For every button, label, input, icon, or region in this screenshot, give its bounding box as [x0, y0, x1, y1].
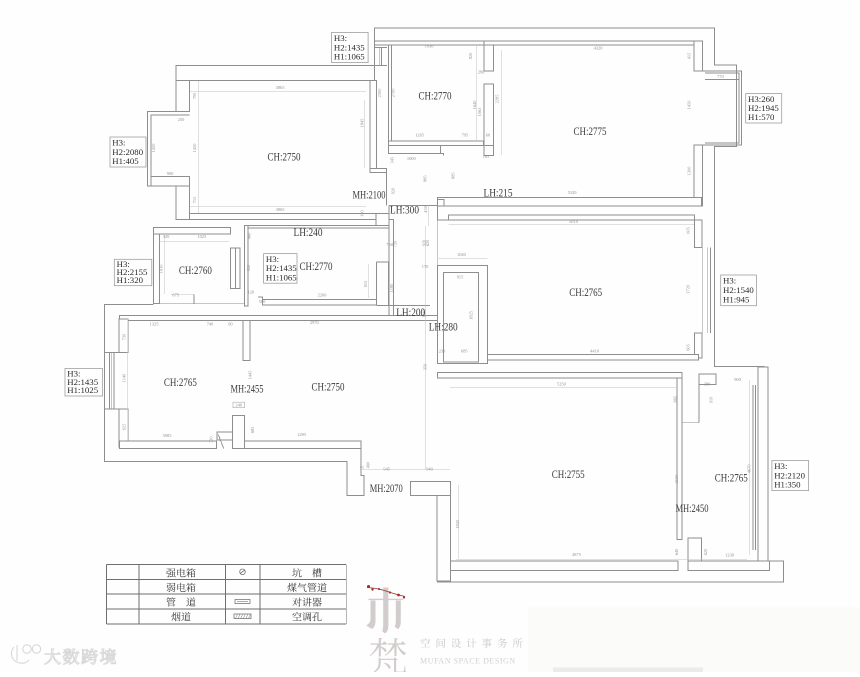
svg-text:5250: 5250	[557, 382, 567, 387]
hall left wall vertical	[389, 220, 394, 316]
svg-text:460: 460	[247, 232, 252, 239]
left wall of bottom-right CH:2765	[677, 378, 682, 539]
svg-text:415: 415	[687, 52, 692, 59]
window edge line right mid	[701, 248, 703, 334]
svg-text:910: 910	[708, 396, 713, 403]
svg-text:1445: 1445	[248, 370, 253, 380]
right wall of mid CH:2765 upper	[695, 220, 703, 248]
svg-text:4410: 4410	[590, 349, 600, 354]
label box H3 top-middle	[332, 32, 369, 62]
dim line inside CH:2750 bottom	[190, 205, 366, 207]
label box H3 right middle	[721, 275, 757, 306]
svg-text:430: 430	[423, 205, 428, 212]
outer boundary bottom-left	[105, 305, 365, 496]
svg-text:330: 330	[208, 436, 213, 443]
door band middle line	[234, 248, 236, 288]
dim line inside living room top	[450, 386, 677, 388]
svg-text:LH:280: LH:280	[429, 320, 458, 334]
balcony left bottom sill	[151, 177, 190, 187]
svg-text:5085: 5085	[163, 433, 173, 438]
wall line below jog	[386, 172, 388, 205]
dim line 675	[171, 293, 194, 295]
svg-text:945: 945	[383, 467, 390, 472]
pier in bottom wall	[233, 416, 245, 449]
svg-text:1410: 1410	[158, 264, 163, 274]
notch at start of mid CH:2765 top wall	[449, 216, 463, 220]
svg-text:1820: 1820	[455, 519, 460, 529]
label box H3 left middle	[114, 259, 152, 286]
svg-text:2200: 2200	[318, 293, 328, 298]
svg-text:5010: 5010	[569, 219, 579, 224]
hall left line upper	[388, 205, 390, 219]
dim line inside CH:2760 left	[164, 234, 166, 294]
svg-text:1450: 1450	[687, 100, 692, 110]
svg-text:H1:405: H1:405	[112, 156, 139, 166]
dim line entrance horizontal	[364, 468, 450, 470]
outer boundary bottom-right	[437, 561, 783, 582]
svg-text:1230: 1230	[725, 553, 735, 558]
svg-text:H1:1065: H1:1065	[334, 52, 365, 62]
svg-text:H1:1025: H1:1025	[67, 385, 98, 395]
svg-text:1040: 1040	[457, 252, 467, 257]
dim line right of CH:2770	[476, 46, 478, 140]
legend symbol flue hatched	[234, 614, 251, 619]
svg-text:920: 920	[391, 187, 396, 194]
top wall of room CH:2775	[484, 41, 695, 45]
svg-text:240: 240	[236, 403, 243, 408]
foyer closet right line	[698, 384, 700, 422]
bottom wall lower band CH:2770	[389, 146, 441, 154]
line below closet	[376, 305, 430, 307]
svg-text:900: 900	[167, 171, 174, 176]
svg-text:500: 500	[259, 299, 266, 304]
door swing line	[218, 434, 224, 448]
svg-text:H1:945: H1:945	[723, 295, 750, 305]
watermark mufan logo glyph MU (stylized wood)	[366, 588, 403, 634]
dim line inside CH:2775 left	[500, 50, 502, 155]
svg-text:170: 170	[422, 264, 429, 269]
window glazing left of CH:2770 a	[378, 48, 380, 66]
svg-text:CH:2755: CH:2755	[552, 467, 585, 481]
top wall of room CH:2750	[176, 66, 375, 81]
svg-text:760: 760	[386, 242, 393, 247]
svg-text:720: 720	[393, 240, 398, 247]
partition between CH:2765 and bottom CH:2750	[243, 321, 250, 361]
svg-text:620: 620	[425, 239, 430, 246]
dim line inside bottom-left room	[127, 319, 129, 447]
step line below CH:2760	[193, 294, 195, 303]
dim line below mid top wall	[449, 223, 694, 225]
living room left wall	[437, 496, 451, 581]
svg-text:675: 675	[172, 293, 179, 298]
bottom wall of mid CH:2765	[488, 355, 699, 360]
dim line closet	[367, 264, 369, 298]
window head line left	[105, 351, 119, 353]
svg-text:640: 640	[674, 548, 679, 555]
dim line hall vertical 1	[425, 226, 427, 469]
svg-text:1265: 1265	[415, 133, 425, 138]
label box H3 bottom right	[772, 461, 809, 491]
door block 380	[699, 374, 716, 384]
stub wall at MH:2450 door	[688, 538, 702, 561]
svg-text:230: 230	[439, 349, 446, 354]
svg-text:685: 685	[461, 349, 468, 354]
window glazing bottom right 2	[754, 385, 756, 550]
svg-text:1325: 1325	[150, 322, 160, 327]
wall block below CH:2750 right corner	[376, 214, 389, 228]
dim line inside CH:2750 left	[198, 81, 200, 213]
step line to mid CH:2765 top wall	[438, 206, 449, 220]
wall box below CH:2775 bottom wall	[438, 200, 445, 206]
watermark text kongjian sheji shiwusuo	[420, 638, 522, 648]
svg-text:CH:2765: CH:2765	[715, 471, 748, 485]
dim line above shaft 1040	[438, 258, 488, 260]
svg-text:795: 795	[462, 133, 469, 138]
svg-text:380: 380	[704, 382, 711, 387]
label box H3 right upper	[746, 94, 782, 123]
top wall of room CH:2760	[154, 227, 231, 233]
dim line above living bottom wall	[456, 558, 747, 560]
window glazing left 2	[111, 352, 113, 409]
legend symbol pit circle	[240, 569, 246, 575]
svg-text:2285: 2285	[495, 94, 500, 104]
door jamb piece at bottom wall	[217, 432, 233, 440]
svg-text:2700: 2700	[391, 88, 396, 98]
window glazing left 3	[113, 352, 115, 409]
door band right of CH:2760	[231, 248, 240, 288]
svg-text:MH:2070: MH:2070	[370, 481, 403, 495]
svg-text:740: 740	[207, 322, 214, 327]
svg-text:490: 490	[366, 461, 371, 468]
svg-text:H2:1540: H2:1540	[723, 285, 754, 295]
label box H3 left lower	[65, 368, 103, 396]
left wall lower of CH:2750	[176, 186, 190, 220]
svg-text:250: 250	[178, 117, 185, 122]
svg-text:H3:: H3:	[723, 276, 736, 286]
svg-text:2970: 2970	[310, 320, 320, 325]
legend table grid	[107, 564, 347, 566]
svg-text:CH:2765: CH:2765	[164, 375, 197, 389]
right wall of bottom-right section	[758, 367, 768, 561]
balcony left outer	[147, 112, 189, 187]
svg-text:1180: 1180	[389, 283, 394, 292]
svg-text:1720: 1720	[686, 284, 691, 294]
svg-text:3865: 3865	[276, 207, 286, 212]
svg-text:MH:2450: MH:2450	[676, 501, 709, 515]
top wall of mid-right CH:2765	[448, 215, 694, 220]
outer boundary top-left horizontal	[176, 65, 387, 67]
svg-text:CH:2770: CH:2770	[300, 259, 333, 273]
label box H3 left upper	[110, 137, 146, 167]
svg-text:CH:2750: CH:2750	[268, 150, 301, 164]
closet right line	[388, 262, 390, 306]
svg-text:900: 900	[734, 377, 741, 382]
hall top line	[389, 204, 438, 206]
svg-text:1000: 1000	[407, 156, 417, 161]
svg-text:185: 185	[483, 154, 490, 159]
svg-text:1845: 1845	[360, 118, 365, 128]
window glazing bottom right 1	[752, 385, 754, 550]
svg-text:120: 120	[248, 289, 255, 294]
svg-text:605: 605	[686, 343, 691, 350]
wall left of entry hall	[244, 226, 248, 306]
svg-text:CH:2775: CH:2775	[574, 124, 607, 138]
bottom wall of lower CH:2770	[263, 299, 377, 305]
bay window sill line	[705, 78, 739, 80]
svg-text:H1:570: H1:570	[748, 112, 775, 122]
bottom wall of CH:2775	[438, 198, 702, 206]
svg-text:700: 700	[192, 92, 197, 99]
svg-text:MUFAN SPACE DESIGN: MUFAN SPACE DESIGN	[420, 657, 516, 666]
svg-text:925: 925	[121, 423, 126, 430]
svg-text:3865: 3865	[276, 85, 286, 90]
foyer closet bottom line	[682, 422, 699, 424]
svg-text:1300: 1300	[687, 166, 692, 176]
svg-text:190: 190	[360, 210, 365, 217]
wall between CH:2770 hallway and CH:2775	[484, 84, 493, 156]
faint gray band bottom right	[528, 608, 860, 673]
svg-text:LH:200: LH:200	[396, 305, 425, 319]
entrance step wall	[361, 448, 364, 483]
svg-text:730: 730	[121, 333, 126, 340]
svg-text:320: 320	[163, 234, 170, 239]
svg-text:685: 685	[250, 426, 255, 433]
living room top wall	[438, 373, 682, 379]
dim line inside CH:2750 top	[190, 90, 366, 92]
svg-text:770: 770	[717, 74, 724, 79]
svg-text:CH:2750: CH:2750	[312, 380, 345, 394]
right wall lower of CH:2775	[694, 145, 703, 206]
entrance top wall right of MH:2070	[410, 482, 450, 496]
left wall lower of bottom-left CH:2765	[119, 409, 128, 447]
hall right line down to shaft	[437, 220, 439, 265]
svg-text:LH:240: LH:240	[294, 225, 323, 239]
dim line bottom right vertical	[748, 380, 750, 555]
svg-text:1450: 1450	[192, 143, 197, 153]
svg-text:620: 620	[703, 548, 708, 555]
right wall upper of CH:2775	[694, 41, 703, 71]
svg-text:605: 605	[686, 226, 691, 233]
dim line 1820 living room	[457, 485, 459, 559]
bottom wall seg1 of bottom-left CH:2765	[120, 441, 217, 449]
watermark mufan logo glyph FAN	[370, 638, 407, 675]
svg-text:H1:350: H1:350	[774, 480, 801, 490]
svg-text:LH:300: LH:300	[390, 203, 419, 217]
svg-text:940: 940	[426, 467, 433, 472]
svg-text:885: 885	[451, 172, 456, 179]
living room bottom wall seg2	[688, 561, 770, 571]
svg-text:965: 965	[673, 395, 678, 402]
svg-text:CH:2770: CH:2770	[419, 89, 452, 103]
svg-text:MH:2100: MH:2100	[353, 188, 386, 202]
dim line inside CH:2750 right	[364, 100, 366, 168]
closet top line	[376, 261, 388, 263]
window sill line left	[105, 408, 119, 410]
svg-text:915: 915	[363, 280, 368, 287]
svg-text:2295: 2295	[297, 432, 307, 437]
svg-text:1065: 1065	[477, 107, 482, 117]
dim line hall vertical 2	[428, 205, 430, 226]
bottom wall seg2 of bottom-left CH:2765	[245, 441, 361, 449]
svg-text:1830: 1830	[425, 44, 435, 49]
bottom wall of CH:2750	[190, 214, 377, 220]
svg-text:350: 350	[423, 363, 428, 370]
right wall jog of CH:2750	[370, 168, 387, 172]
window glazing line right mid 2	[709, 248, 711, 334]
left wall upper of CH:2750	[176, 81, 190, 112]
svg-text:5320: 5320	[568, 190, 578, 195]
pillar wall top between CH:2770 and CH:2775	[484, 41, 493, 71]
svg-text:820: 820	[246, 264, 251, 271]
watermark red plum branch	[367, 588, 405, 597]
closet shelf line	[360, 298, 375, 300]
closet left line	[375, 262, 377, 306]
svg-text:1025: 1025	[197, 234, 207, 239]
window glazing left 1	[108, 352, 110, 409]
watermark dashukuajing logo bottom-left	[11, 645, 40, 663]
duct shaft outer	[438, 265, 488, 363]
svg-text:2300: 2300	[377, 88, 382, 98]
outer boundary top and right	[375, 28, 765, 367]
bottom wall of CH:2770	[389, 141, 484, 146]
label box H3 center	[264, 254, 298, 284]
svg-text:1825: 1825	[468, 310, 473, 320]
svg-text:820: 820	[468, 52, 473, 59]
step at CH:2775 left bottom corner	[484, 146, 494, 156]
svg-text:1450: 1450	[151, 143, 156, 153]
svg-text:2150: 2150	[674, 474, 679, 484]
top wall of entry hall LH:240	[248, 226, 389, 228]
svg-text:345: 345	[390, 156, 395, 163]
step at lower CH:2770 bottom-left	[258, 297, 263, 299]
svg-text:4875: 4875	[572, 552, 582, 557]
living room bottom wall seg1	[451, 561, 678, 571]
legend symbol pipe rect	[235, 600, 250, 604]
svg-text:885: 885	[423, 175, 428, 182]
boxed dim 240	[233, 402, 245, 408]
svg-text:4320: 4320	[594, 46, 604, 51]
svg-text:H1:320: H1:320	[117, 275, 144, 285]
top wall of room CH:2770	[375, 41, 485, 45]
right wall of CH:2750	[370, 81, 377, 169]
window glazing left of CH:2770 b	[380, 48, 382, 66]
svg-text:915: 915	[457, 275, 464, 280]
left wall of CH:2770	[389, 45, 392, 141]
svg-text:1140: 1140	[121, 373, 126, 382]
left wall of CH:2760	[154, 234, 160, 304]
window glazing line right mid 1	[706, 248, 708, 334]
svg-text:715: 715	[192, 196, 197, 203]
bay window right outer	[703, 71, 742, 145]
bay window right inner	[705, 73, 739, 143]
svg-text:CH:2760: CH:2760	[179, 263, 212, 277]
line below CH:2760	[154, 303, 245, 305]
step below CH:2770 wall	[439, 153, 444, 155]
svg-text:290: 290	[478, 70, 485, 75]
svg-text:H1:1065: H1:1065	[266, 272, 297, 282]
svg-text:MH:2455: MH:2455	[231, 382, 264, 396]
balcony left inner	[151, 115, 190, 177]
dim line inside CH:2760 top	[159, 241, 229, 243]
faint bottom bar	[553, 668, 703, 673]
duct shaft inner	[444, 273, 479, 362]
svg-text:CH:2765: CH:2765	[569, 285, 602, 299]
right wall of mid CH:2765 lower	[695, 333, 703, 358]
window head left of CH:2770	[375, 47, 388, 49]
corridor top wall	[120, 315, 438, 320]
left wall upper of bottom-left CH:2765	[119, 319, 128, 352]
svg-text:LH:215: LH:215	[484, 186, 513, 200]
